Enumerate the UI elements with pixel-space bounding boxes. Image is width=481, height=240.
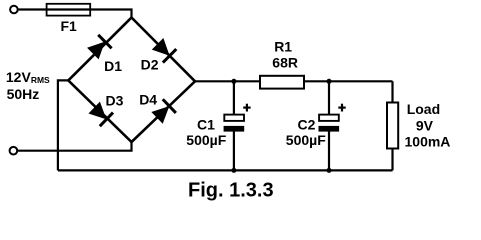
terminal (top AC input) — [10, 6, 18, 14]
svg-text:500µF: 500µF — [286, 132, 326, 148]
svg-text:500µF: 500µF — [186, 132, 226, 148]
wire (C1 branch upper) — [233, 81, 235, 116]
fuse F1 — [47, 4, 91, 16]
diode D1 — [86, 35, 111, 60]
wire (C1 branch lower) — [233, 131, 235, 171]
node (C2 bottom junction) — [327, 168, 332, 173]
wire (C2 branch upper) — [328, 81, 330, 116]
wire (positive DC rail) — [195, 80, 393, 82]
capacitor C1 — [224, 115, 245, 132]
svg-text:9V: 9V — [416, 117, 434, 133]
node (C1 bottom junction) — [231, 168, 236, 173]
resistor R1 — [260, 76, 304, 89]
polarity plus (C2) — [338, 104, 345, 112]
polarity plus (C1) — [243, 104, 250, 112]
svg-text:C2: C2 — [298, 117, 316, 133]
node (C1 top junction) — [231, 79, 236, 84]
terminal (bottom AC input) — [10, 147, 18, 155]
wire (C2 branch lower) — [328, 131, 330, 171]
wire (top terminal to bridge top vertex, through fuse) — [18, 10, 132, 18]
svg-text:50Hz: 50Hz — [7, 86, 40, 102]
load resistor — [387, 103, 398, 149]
diode D3 — [88, 101, 113, 126]
svg-text:D4: D4 — [139, 91, 157, 107]
svg-text:D3: D3 — [106, 92, 124, 108]
wire (bridge upper-right edge) — [132, 18, 196, 82]
svg-text:D2: D2 — [141, 57, 159, 73]
svg-text:Fig. 1.3.3: Fig. 1.3.3 — [188, 180, 274, 202]
diode D2 — [151, 37, 176, 62]
capacitor C2 — [319, 115, 340, 132]
wire (bridge upper-left edge) — [68, 18, 131, 81]
svg-text:C1: C1 — [197, 117, 215, 133]
svg-text:D1: D1 — [104, 58, 122, 74]
svg-text:R1: R1 — [274, 39, 292, 55]
wire (bridge left vertex to bottom rail) — [58, 80, 68, 170]
wire (bridge lower-left edge) — [68, 80, 131, 142]
svg-text:F1: F1 — [61, 18, 78, 34]
wire (bottom terminal to bridge bottom vertex) — [17, 142, 132, 151]
diode D4 — [150, 99, 175, 124]
svg-text:68R: 68R — [272, 54, 298, 70]
wire (bridge lower-right edge) — [132, 81, 196, 142]
node (C2 top junction) — [327, 79, 332, 84]
svg-text:Load: Load — [407, 101, 440, 117]
svg-text:12VRMS: 12VRMS — [6, 69, 50, 85]
svg-text:100mA: 100mA — [405, 134, 451, 150]
wire (bottom rail) — [58, 169, 393, 171]
wire (load branch) — [391, 81, 393, 170]
